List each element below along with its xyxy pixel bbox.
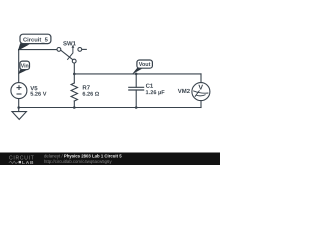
svg-text:Vin: Vin — [21, 63, 29, 69]
svg-text:Circuit_5: Circuit_5 — [23, 38, 49, 44]
svg-text:1.26 µF: 1.26 µF — [146, 90, 166, 96]
svg-text:R7: R7 — [82, 86, 90, 92]
svg-text:LAB: LAB — [22, 160, 34, 165]
svg-text:VM2: VM2 — [178, 89, 191, 95]
svg-text:6.26 Ω: 6.26 Ω — [82, 92, 99, 98]
svg-text:SW1: SW1 — [63, 41, 77, 47]
svg-text:C1: C1 — [146, 84, 154, 90]
svg-text:http://circuitlab.com/c4wq6acw: http://circuitlab.com/c4wq6acw5g6y — [44, 159, 112, 164]
svg-text:V: V — [198, 84, 203, 91]
svg-text:Vout: Vout — [139, 62, 151, 68]
svg-text:5.26 V: 5.26 V — [30, 92, 46, 98]
